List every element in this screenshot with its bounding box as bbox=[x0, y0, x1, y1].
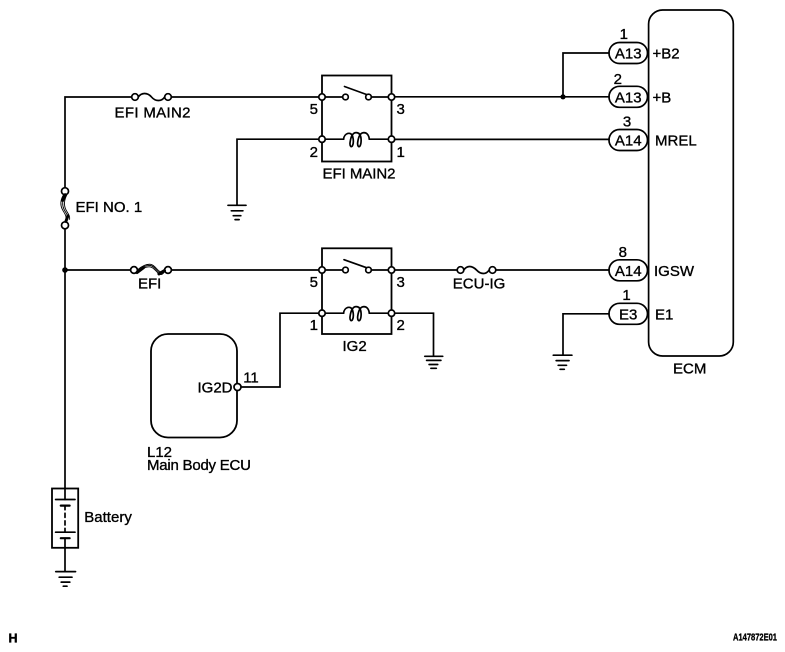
ECM box bbox=[649, 10, 734, 356]
wire relay IG2 coil pin1 to L12 bbox=[241, 313, 319, 387]
wire EFI fuse to relay IG2 bbox=[171, 269, 318, 271]
svg-text:EFI: EFI bbox=[138, 276, 161, 293]
relay EFI MAIN2 box bbox=[322, 76, 392, 162]
battery internal plates bbox=[56, 489, 75, 549]
svg-text:A147872E01: A147872E01 bbox=[733, 632, 777, 643]
svg-text:A13: A13 bbox=[615, 46, 642, 63]
wire E3 to ground bbox=[563, 314, 609, 355]
wire relay IG2 pin3 to ECU-IG fuse bbox=[395, 269, 458, 271]
svg-text:A14: A14 bbox=[615, 133, 642, 150]
svg-text:2: 2 bbox=[310, 144, 318, 161]
svg-text:3: 3 bbox=[623, 114, 631, 131]
svg-text:11: 11 bbox=[243, 370, 259, 387]
ground (relay EFI MAIN2 coil) bbox=[228, 205, 246, 219]
svg-text:ECM: ECM bbox=[673, 361, 706, 378]
wire ECU-IG to IGSW bbox=[496, 269, 609, 271]
ground (IG2 coil) bbox=[425, 356, 443, 368]
relay EFI MAIN2 switch bbox=[319, 87, 395, 101]
fusible link EFI NO. 1 bbox=[61, 188, 70, 229]
connector A14 MREL bbox=[609, 114, 697, 151]
relay IG2 switch bbox=[319, 260, 395, 273]
svg-text:ECU-IG: ECU-IG bbox=[453, 275, 506, 292]
svg-text:E1: E1 bbox=[655, 306, 673, 323]
svg-text:IG2: IG2 bbox=[343, 338, 367, 355]
wire left vertical top segment bbox=[65, 97, 132, 188]
wire battery to ground bbox=[64, 548, 66, 571]
wire relay coil pin2 to ground bbox=[237, 139, 319, 205]
wire relay coil pin1 to MREL bbox=[395, 138, 609, 140]
wire relay pin3 to +B bbox=[395, 96, 609, 98]
fuse EFI MAIN2 bbox=[132, 93, 172, 100]
ground (E3) bbox=[553, 355, 572, 369]
svg-text:MREL: MREL bbox=[655, 133, 697, 150]
wire left vertical lower segment bbox=[64, 229, 66, 489]
fusible link EFI bbox=[131, 264, 172, 274]
fuse ECU-IG bbox=[457, 266, 496, 273]
svg-text:H: H bbox=[9, 632, 18, 646]
relay EFI MAIN2 coil bbox=[319, 133, 395, 147]
svg-text:A13: A13 bbox=[615, 89, 642, 106]
svg-text:5: 5 bbox=[310, 101, 318, 118]
svg-text:E3: E3 bbox=[619, 306, 637, 323]
svg-text:+B2: +B2 bbox=[653, 46, 680, 63]
pin IG2D circle bbox=[234, 384, 241, 391]
svg-text:2: 2 bbox=[397, 317, 405, 334]
svg-text:3: 3 bbox=[397, 274, 405, 291]
connector A14 IGSW bbox=[609, 244, 695, 281]
battery box bbox=[52, 489, 78, 548]
relay IG2 coil bbox=[319, 307, 395, 321]
svg-text:1: 1 bbox=[622, 287, 630, 304]
svg-text:+B: +B bbox=[653, 89, 672, 106]
svg-text:2: 2 bbox=[614, 71, 622, 88]
connector A13 +B bbox=[609, 71, 671, 107]
svg-text:Battery: Battery bbox=[84, 509, 132, 526]
svg-text:1: 1 bbox=[620, 26, 628, 43]
junction dot +B branch bbox=[560, 94, 565, 99]
svg-text:8: 8 bbox=[619, 244, 627, 261]
svg-text:EFI NO. 1: EFI NO. 1 bbox=[76, 199, 143, 216]
svg-text:5: 5 bbox=[310, 274, 318, 291]
svg-text:1: 1 bbox=[397, 144, 405, 161]
svg-text:A14: A14 bbox=[615, 263, 642, 280]
svg-text:1: 1 bbox=[310, 317, 318, 334]
ground (battery) bbox=[56, 572, 76, 587]
wire lower horizontal to EFI fuse bbox=[65, 269, 131, 271]
relay pin labels 5 3 2 1 bbox=[310, 101, 405, 161]
wire top to relay bbox=[171, 96, 318, 98]
relay IG2 pin labels 5 3 1 2 bbox=[310, 274, 405, 334]
wire branch to +B2 bbox=[563, 53, 609, 97]
svg-text:IG2D: IG2D bbox=[197, 379, 232, 396]
svg-text:IGSW: IGSW bbox=[654, 263, 695, 280]
wire relay IG2 coil pin2 to ground bbox=[395, 313, 434, 356]
connector A13 +B2 bbox=[609, 26, 680, 64]
svg-text:EFI MAIN2: EFI MAIN2 bbox=[323, 165, 396, 182]
connector E3 E1 bbox=[609, 287, 673, 324]
svg-text:3: 3 bbox=[397, 101, 405, 118]
junction dot lower-left bbox=[62, 267, 68, 273]
relay IG2 box bbox=[322, 248, 392, 334]
svg-text:Main Body ECU: Main Body ECU bbox=[147, 457, 251, 474]
svg-text:EFI MAIN2: EFI MAIN2 bbox=[115, 105, 191, 122]
L12 Main Body ECU box bbox=[151, 334, 237, 438]
